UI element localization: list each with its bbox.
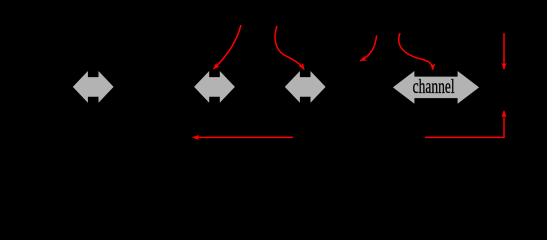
- red curve C1: codes -> arrow A2: [213, 25, 241, 69]
- svg-text:channel: channel: [413, 76, 455, 98]
- gray double arrow A3: [285, 71, 326, 103]
- gray channel double arrow: [393, 71, 479, 104]
- red bottom-left arrow: feedback -> left: [193, 136, 293, 138]
- svg-text:transmission: transmission: [350, 16, 426, 32]
- svg-text:sense: sense: [20, 80, 53, 96]
- red bottom-right elbow arrow: feedback -> up to signal: [425, 111, 504, 137]
- svg-text:codes: codes: [242, 12, 276, 28]
- svg-text:words: words: [136, 80, 173, 96]
- gray double arrow A1: [73, 71, 114, 103]
- gray double arrow A2: [194, 71, 235, 103]
- svg-text:signal: signal: [341, 80, 377, 96]
- red curve C2: codes -> arrow A3: [275, 26, 304, 70]
- red vertical arrow V1: noise -> received signal: [503, 33, 505, 69]
- svg-text:feedback: feedback: [332, 130, 387, 146]
- svg-text:noise: noise: [488, 16, 520, 32]
- svg-text:signal: signal: [494, 80, 530, 96]
- red curve C3: transmission -> word signal: [360, 35, 376, 61]
- red curve C4: transmission -> channel arrow: [399, 33, 433, 70]
- svg-text:sounds: sounds: [239, 80, 281, 96]
